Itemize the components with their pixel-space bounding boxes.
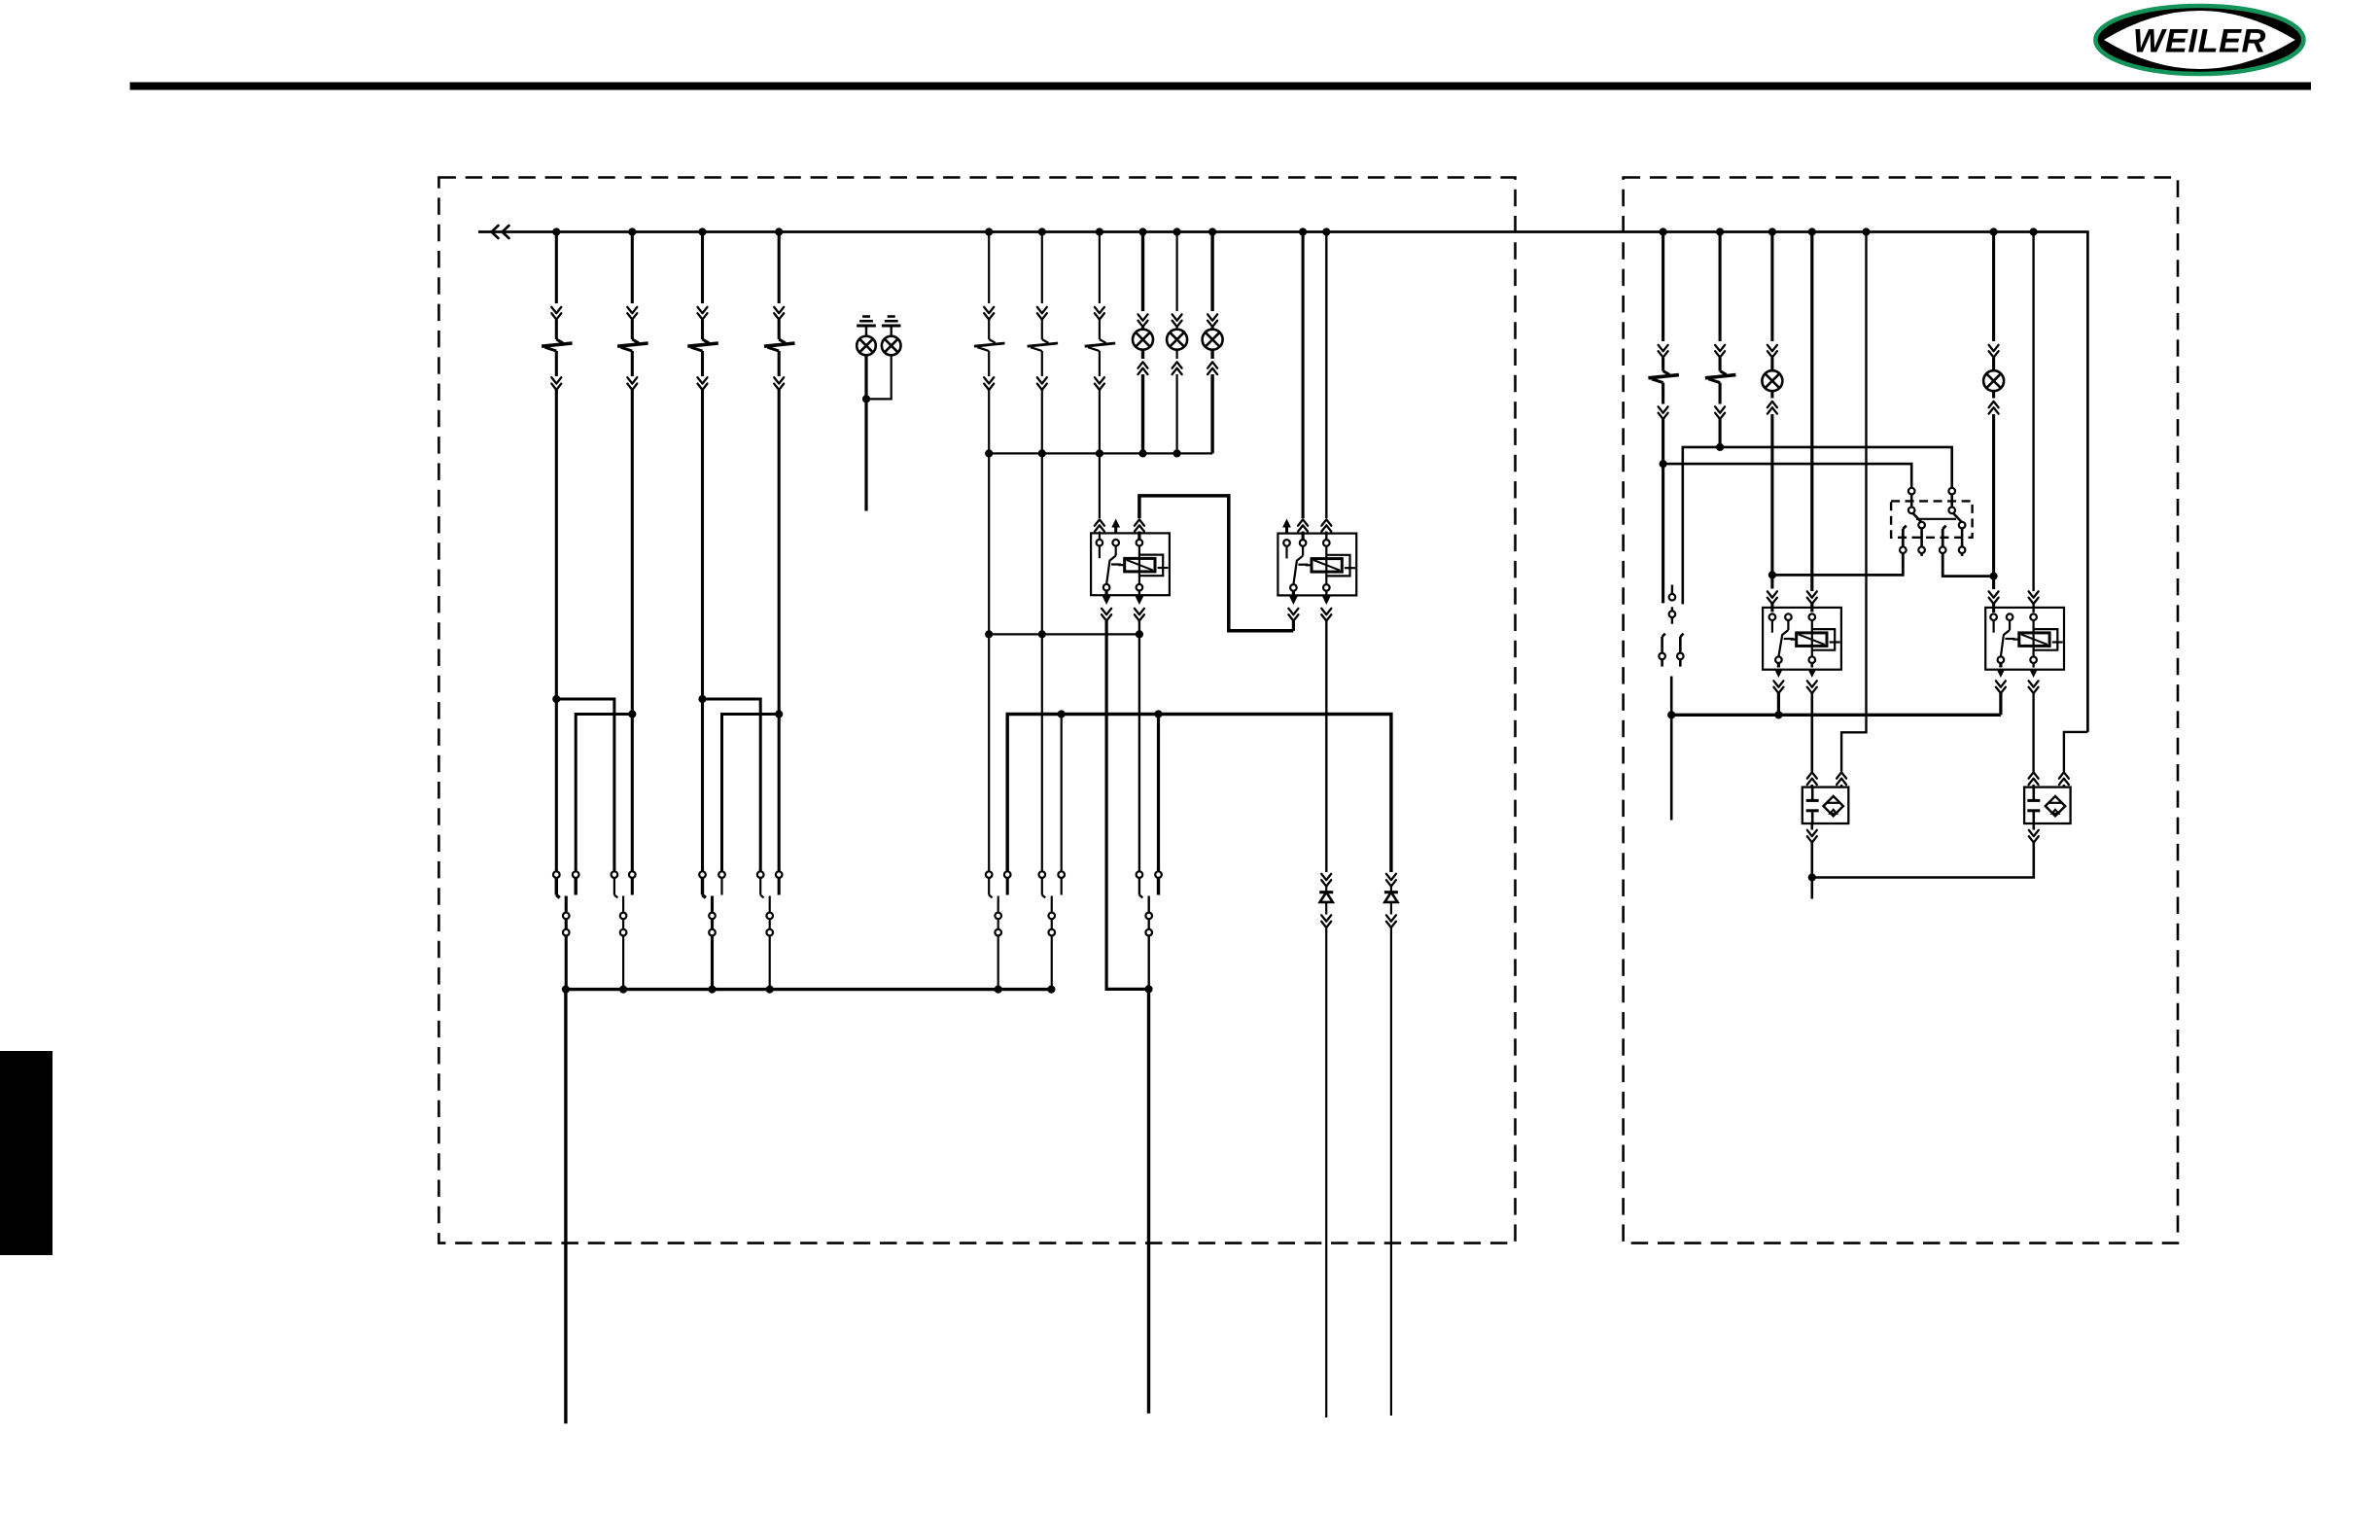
wire jog F3 to switch S4 xyxy=(698,695,760,872)
Weiler logo xyxy=(2095,6,2303,74)
relay K4 bottom-left wire xyxy=(1996,663,2006,715)
motor M2 ground wire xyxy=(1812,823,2039,877)
indicator lamp H4 xyxy=(1762,232,1782,612)
relay K4 bottom-right wire to motor M2 xyxy=(2029,663,2039,788)
diode V2 xyxy=(1384,874,1398,1416)
fuse F9 xyxy=(1705,232,1736,420)
fuse F1 with connectors xyxy=(542,232,573,872)
relay K1 xyxy=(1091,533,1170,595)
relay K1 pin3 wire to relay K2 xyxy=(1135,496,1294,631)
relay K2 bottom-left wire xyxy=(1288,591,1298,631)
wire bus to relay K4 pin3 xyxy=(2029,232,2039,612)
lamp E2 wire xyxy=(862,355,892,402)
bus source arrow xyxy=(492,226,509,238)
relay K3 xyxy=(1763,608,1841,670)
lamp trio return wire xyxy=(989,449,1212,457)
selector switch S9 (dashed) xyxy=(1891,488,1973,556)
wire bus to relay K3 pin3 xyxy=(1807,232,1817,612)
switch S2 xyxy=(612,871,636,989)
switch S8 xyxy=(1659,634,1683,821)
motor M1 xyxy=(1802,787,1849,824)
wire F7 to relay K1 xyxy=(1095,390,1104,540)
ground symbol G2 xyxy=(882,317,901,336)
relay K1 pin2 arrow xyxy=(1111,519,1120,534)
power bus wire B+ xyxy=(478,232,2087,732)
switch S7 xyxy=(1137,871,1162,986)
feed wire B to selector left pole xyxy=(1663,464,1912,488)
wire jog F1 to switch S2 xyxy=(552,695,614,872)
relay K1 bottom-right wire xyxy=(1135,591,1144,872)
switch S5 xyxy=(986,871,1011,989)
return wire to harness (bottom left) xyxy=(564,990,567,1424)
enclosure box 1 (operator console, dashed) xyxy=(438,178,1515,1243)
svg-text:WEILER: WEILER xyxy=(2133,23,2266,60)
ground symbol G1 xyxy=(857,317,876,336)
relay K2 xyxy=(1277,534,1356,596)
switch S7 return wire xyxy=(1147,989,1150,1413)
switch S7 right leg wire xyxy=(1157,715,1160,872)
switch return bus xyxy=(562,986,1056,994)
switch S6 xyxy=(1039,871,1065,989)
diode V1 xyxy=(1319,874,1333,1417)
fuse F6 xyxy=(1028,232,1059,391)
wire bus to motor M1 plus xyxy=(1837,232,1866,788)
fuse F3 with connectors xyxy=(687,232,718,872)
distribution wire 734 xyxy=(1007,710,1391,872)
lamp E1 wire xyxy=(864,355,867,510)
wire jog F4 branch to switch S3 xyxy=(722,710,784,871)
wire selector plunger right xyxy=(1942,550,1993,577)
relay K2 bottom-right wire to diode V1 xyxy=(1321,591,1331,872)
wire F5 down xyxy=(985,390,993,871)
indicator lamp H2 xyxy=(1167,232,1187,454)
switch S6 right leg wire xyxy=(1061,715,1063,872)
enclosure box 2 (rear console, dashed) xyxy=(1624,178,2178,1243)
fuse F8 xyxy=(1648,232,1679,420)
motor M1 ground wire xyxy=(1807,823,1817,898)
wire F6 down xyxy=(1038,390,1046,871)
page top rule xyxy=(130,83,2311,90)
indicator lamp H5 xyxy=(1983,232,2004,612)
relay K2 pin1 arrow xyxy=(1282,519,1291,534)
wire selector plunger left xyxy=(1772,550,1903,575)
lamp E1 xyxy=(857,336,876,356)
fuse F8 wire down xyxy=(1660,419,1667,603)
relay K4 xyxy=(1985,608,2064,670)
switch S4 xyxy=(757,871,783,989)
motor M2 xyxy=(2024,787,2071,824)
wire node line at 652 xyxy=(989,633,1139,635)
relay K2 pin2 wire from bus xyxy=(1298,232,1308,541)
wire bus end to motor M2 plus xyxy=(2059,732,2088,788)
indicator lamp H3 xyxy=(1203,232,1223,454)
relay K3 bottom-right wire to motor M1 xyxy=(1807,663,1817,788)
fuse F9 wire down xyxy=(1716,419,1724,451)
switch S1 xyxy=(553,871,579,989)
relay K1 bottom-left wire xyxy=(1102,591,1153,994)
fuse F2 with connectors xyxy=(617,232,648,872)
fuse F7 xyxy=(1085,232,1116,391)
link wire 735 xyxy=(1671,711,2001,718)
fuse F5 xyxy=(974,232,1005,391)
relay K2 pin3 wire from bus xyxy=(1321,232,1331,541)
relay K3 bottom-left wire xyxy=(1773,663,1783,715)
indicator lamp H1 xyxy=(1133,232,1153,454)
section tab marker xyxy=(0,1051,52,1255)
connector X1 xyxy=(1669,585,1676,624)
fuse F4 with connectors xyxy=(764,232,795,872)
switch S3 xyxy=(699,871,725,989)
wire jog F2 branch to switch S1 xyxy=(576,710,636,871)
bus junction dots xyxy=(552,227,2038,235)
lamp E2 xyxy=(882,336,901,356)
feed wire A to selector right pole xyxy=(1683,447,1952,605)
